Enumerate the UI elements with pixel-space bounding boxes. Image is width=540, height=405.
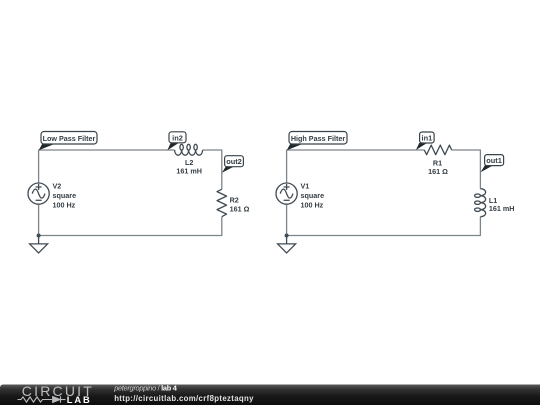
svg-text:petergroppino / lab 4: petergroppino / lab 4 xyxy=(113,384,178,393)
svg-text:out1: out1 xyxy=(486,156,502,165)
junction dot at ground node (left) xyxy=(37,234,41,238)
svg-text:L2: L2 xyxy=(185,158,193,167)
svg-text:161 mH: 161 mH xyxy=(489,204,515,213)
svg-text:in2: in2 xyxy=(172,133,183,142)
svg-text:square: square xyxy=(53,191,77,200)
wire from R2 bottom to bottom-right corner and left to ground node xyxy=(39,217,222,236)
svg-text:100 Hz: 100 Hz xyxy=(301,201,324,210)
resistor R2 xyxy=(217,189,227,216)
svg-text:R2: R2 xyxy=(230,195,239,204)
voltage source V1 xyxy=(276,183,297,204)
CircuitLab logo wordmark CIRCUIT xyxy=(22,383,94,399)
svg-text:High Pass Filter: High Pass Filter xyxy=(291,134,346,143)
label V2 value xyxy=(53,182,77,210)
svg-text:http://circuitlab.com/crf8ptez: http://circuitlab.com/crf8pteztaqny xyxy=(114,394,254,403)
wire from R1 to top-right corner, down to L1 xyxy=(452,150,481,189)
junction dot at ground node (right) xyxy=(285,234,289,238)
ground (right) xyxy=(278,236,296,253)
wire from V1 bottom down to ground node xyxy=(286,204,288,235)
svg-text:Low Pass Filter: Low Pass Filter xyxy=(43,134,96,143)
svg-text:square: square xyxy=(301,191,325,200)
wire from L2 to top-right corner, down to R2 xyxy=(203,150,222,189)
node flag out2 xyxy=(222,156,244,173)
svg-text:161 mH: 161 mH xyxy=(176,167,202,176)
wire top-left: from V1 top up and right to R1 xyxy=(287,150,425,183)
ground (left) xyxy=(30,236,48,253)
footer metadata line 1: petergroppino / lab 4 xyxy=(113,384,178,393)
node flag out1 xyxy=(481,155,504,173)
flag label "High Pass Filter" xyxy=(287,132,347,151)
svg-text:out2: out2 xyxy=(226,157,242,166)
node flag in1 xyxy=(416,132,434,150)
svg-text:100 Hz: 100 Hz xyxy=(53,201,76,210)
voltage source V2 xyxy=(28,183,49,204)
inductor L1 xyxy=(475,189,486,217)
svg-text:161 Ω: 161 Ω xyxy=(428,167,448,176)
svg-text:in1: in1 xyxy=(422,134,433,143)
label L1 value xyxy=(489,196,515,213)
label V1 value xyxy=(301,182,325,210)
wire from V2 bottom down to ground node xyxy=(38,204,40,235)
footer metadata line 2: url xyxy=(114,394,254,403)
svg-text:161 Ω: 161 Ω xyxy=(230,204,250,213)
svg-text:LAB: LAB xyxy=(67,395,92,405)
node flag in2 xyxy=(167,132,186,150)
CircuitLab logo wordmark LAB xyxy=(67,395,92,405)
resistor R1 xyxy=(424,145,451,155)
flag label "Low Pass Filter" xyxy=(39,132,97,151)
label R2 value xyxy=(230,195,250,213)
svg-text:V2: V2 xyxy=(53,182,62,191)
CircuitLab logo resistor-diode underline xyxy=(18,396,66,402)
label L2 value xyxy=(176,158,202,176)
inductor L2 xyxy=(175,144,203,155)
wire top-left: from V2 top up and right to L2 xyxy=(39,150,175,183)
label R1 value xyxy=(428,158,448,175)
svg-text:V1: V1 xyxy=(301,182,310,191)
footer bar background xyxy=(0,385,540,405)
wire from L1 bottom to bottom-right corner and left to ground node xyxy=(287,217,481,236)
